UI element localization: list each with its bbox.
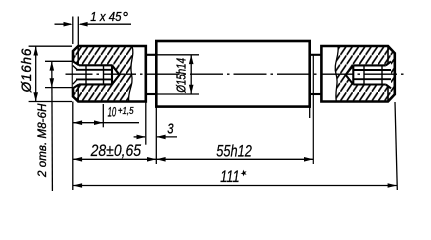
dim 111 arrows [73,183,82,188]
dia15 extension lines [156,54,199,56]
svg-text:Ø16h6: Ø16h6 [19,48,34,93]
right hole bore lines [353,69,391,71]
left threaded hole M8 white cutout [73,61,120,88]
right hole entry chamfer [386,62,391,66]
svg-text:28±0,65: 28±0,65 [90,141,142,160]
dim 3 leader lines [134,136,145,138]
right threaded hole M8 white cutout [346,62,391,89]
dia16 dim line [35,46,37,101]
left hole thread end line [85,65,87,84]
svg-text:2 отв. М8-6Н: 2 отв. М8-6Н [37,103,49,178]
chamfer dim leader lines [55,23,72,25]
M8 dim line extended down [51,61,54,191]
svg-text:111: 111 [220,168,240,186]
svg-text:+1,5: +1,5 [118,106,134,117]
cylinder left face extension down [155,107,157,164]
centerline [66,73,407,75]
svg-text:3: 3 [167,121,173,137]
dia16 arrows [33,46,38,55]
left hole entry chamfer [73,61,79,65]
dia15 dim line [190,55,192,94]
degree circle [124,12,127,15]
dim 28 arrows [73,157,82,162]
svg-text:Ø15h14: Ø15h14 [174,58,188,93]
right hole thread end lines [363,65,365,84]
dim 10 line [73,122,139,124]
left hub chamfer plane line [77,46,79,102]
left hub outline [73,46,146,102]
thread depth extension line [102,104,104,127]
right face extension down [395,102,397,190]
dim 55 arrows [156,157,165,162]
dim 10 arrows [73,120,82,125]
right hole drill cone [346,65,354,84]
right hub chamfer plane line [387,46,389,102]
dia15 arrows [189,55,194,64]
right neck groove contour [310,54,322,56]
M8 extension lines [45,60,73,62]
M8 arrows [50,61,55,70]
dim 28-55 line [73,158,313,160]
right hole thread outer lines [353,64,386,66]
cylinder right face extension down [309,107,311,118]
svg-text:55h12: 55h12 [216,141,252,160]
right hub outline [321,46,394,102]
right hub hatch area [335,46,395,102]
dim 111 line [73,185,397,187]
left hole bore lines [76,69,112,71]
chamfer arrows [64,22,73,27]
dia16 extension lines [29,45,72,47]
left neck groove contour [146,54,157,56]
left hole thread outer lines [79,64,112,66]
left hub section break wavy line [129,46,133,102]
label asterisk tolerance mark [241,170,247,177]
right neck groove boundary line [312,55,314,164]
dim 3 arrows [137,135,146,140]
left face extension line down [72,102,74,191]
svg-text:1 x 45: 1 x 45 [90,10,122,24]
middle cylinder outline [156,41,309,107]
chamfer dim extension ticks [72,17,74,45]
left hub hatch area [73,46,133,102]
svg-text:10: 10 [108,105,117,120]
right hub section break wavy line [335,46,338,102]
hub right face extension down [145,102,147,145]
left hole drill cone [112,65,120,84]
